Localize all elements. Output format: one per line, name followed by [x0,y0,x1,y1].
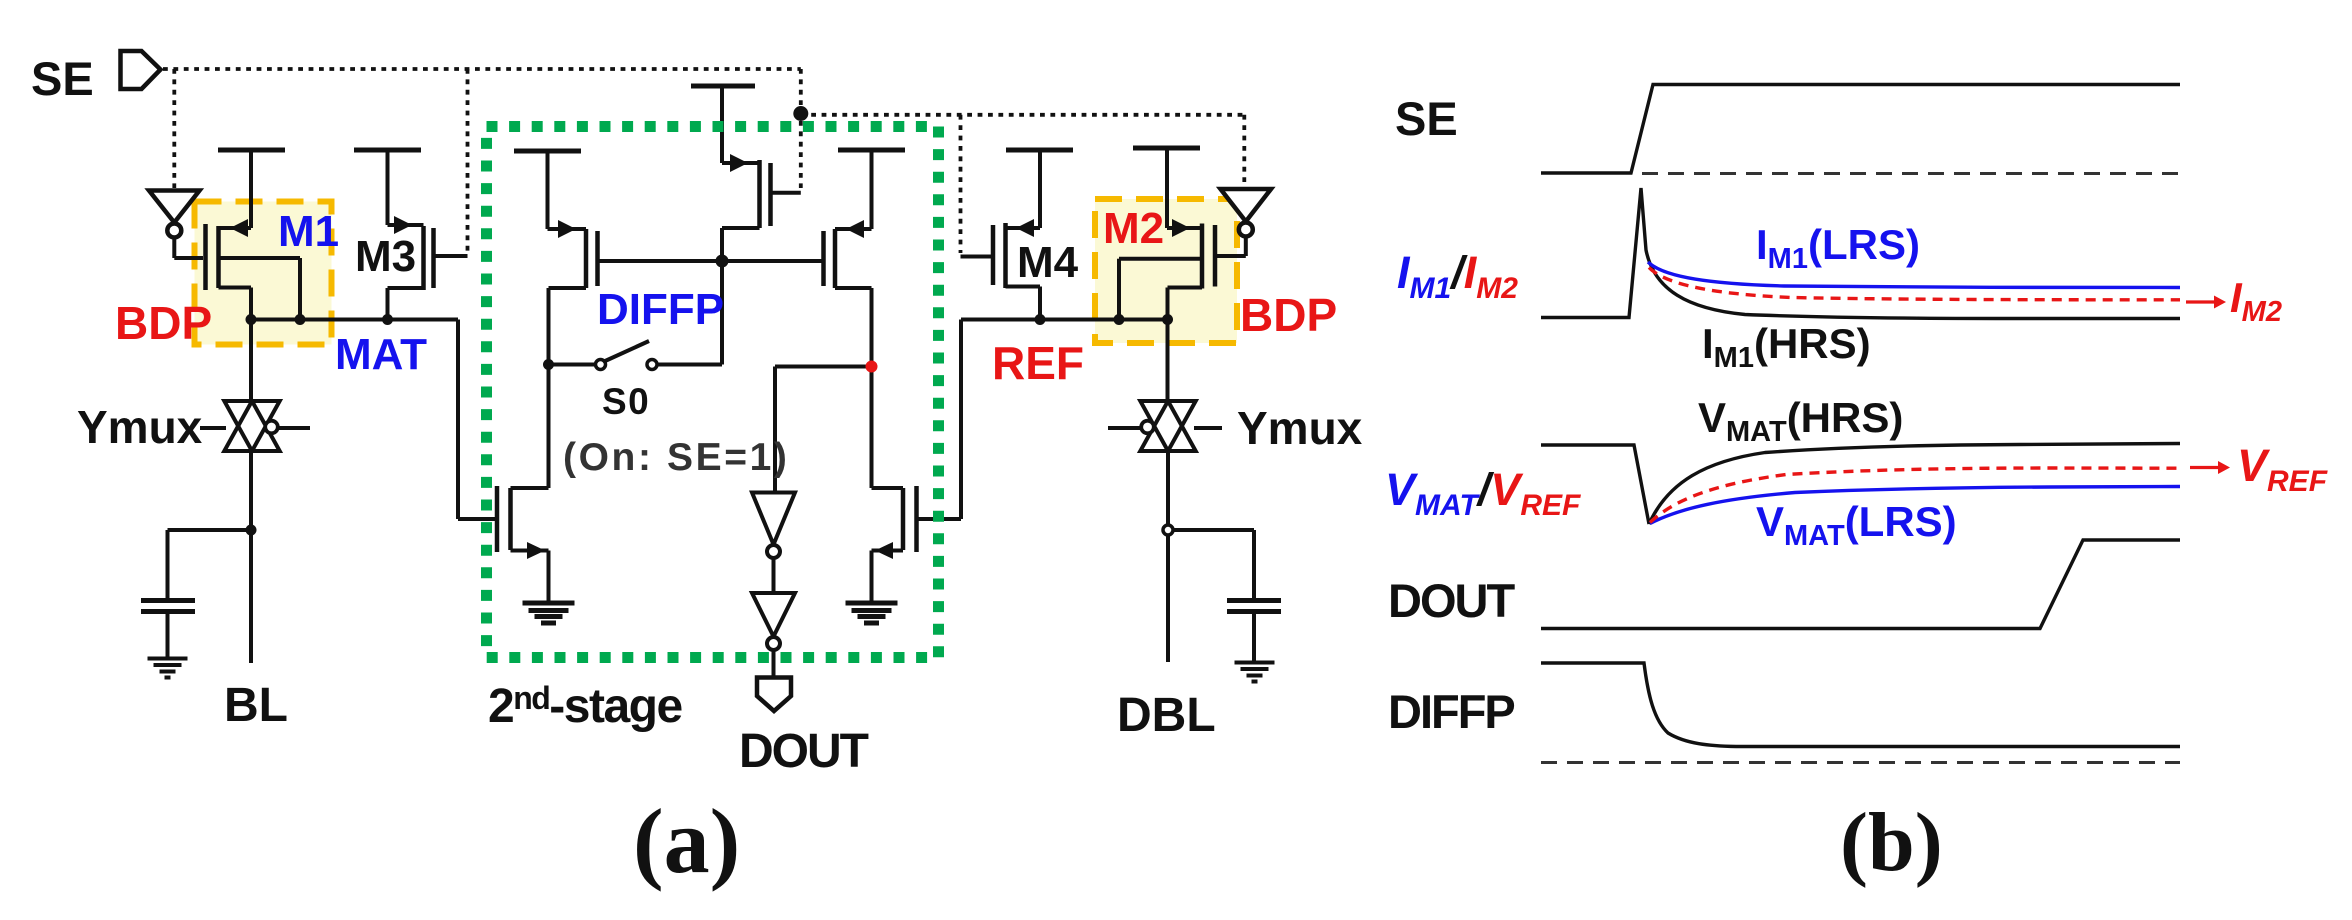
svg-text:DIFFP: DIFFP [1388,685,1514,738]
svg-text:VMAT(HRS): VMAT(HRS) [1698,394,1903,448]
svg-text:BL: BL [224,679,288,732]
svg-text:SE: SE [31,52,94,105]
svg-text:M2: M2 [1103,204,1164,253]
svg-text:VMAT(LRS): VMAT(LRS) [1756,498,1957,552]
svg-text:REF: REF [992,337,1084,389]
svg-text:2nd-stage: 2nd-stage [488,680,682,733]
svg-text:(On: SE=1): (On: SE=1) [563,436,789,479]
svg-text:Ymux: Ymux [77,401,203,453]
svg-text:S0: S0 [602,381,650,422]
svg-text:MAT: MAT [335,330,427,379]
svg-text:DIFFP: DIFFP [597,285,724,334]
svg-text:VREF: VREF [2237,440,2328,498]
svg-text:DOUT: DOUT [739,725,869,778]
svg-text:BDP: BDP [115,297,212,349]
svg-text:M4: M4 [1017,238,1079,287]
svg-text:DOUT: DOUT [1388,574,1515,627]
svg-text:DBL: DBL [1117,689,1216,742]
svg-text:IM1(HRS): IM1(HRS) [1702,320,1871,374]
svg-text:M3: M3 [355,232,416,281]
svg-text:BDP: BDP [1240,289,1337,341]
svg-text:Ymux: Ymux [1237,402,1363,454]
svg-text:M1: M1 [278,207,339,256]
svg-text:SE: SE [1395,92,1458,145]
svg-text:VMAT/VREF: VMAT/VREF [1385,464,1581,522]
svg-text:IM1(LRS): IM1(LRS) [1756,221,1920,275]
svg-text:(a): (a) [633,790,740,892]
svg-text:(b): (b) [1840,796,1943,889]
svg-text:IM2: IM2 [2230,274,2282,328]
svg-text:IM1/IM2: IM1/IM2 [1397,247,1518,305]
